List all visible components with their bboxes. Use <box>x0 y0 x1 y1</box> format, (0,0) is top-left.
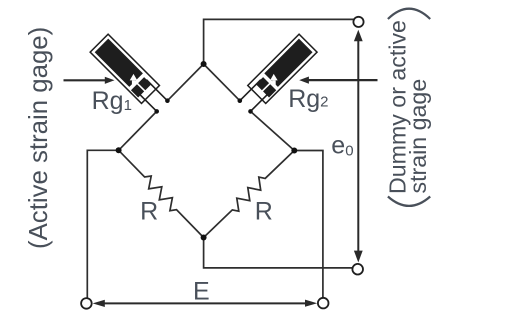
right force arrow <box>299 77 377 84</box>
node Rg2 lead A <box>248 109 253 114</box>
wire right node to bottom-right terminal <box>294 151 323 304</box>
white alignment mark on Rg1 <box>130 74 138 85</box>
node top <box>201 61 207 67</box>
white alignment mark on Rg2 <box>270 74 278 85</box>
node right <box>291 148 297 154</box>
e0 measurement arrow <box>354 30 363 263</box>
wire left node to bottom-left terminal <box>87 150 118 303</box>
wire Rg2 lead A to right node <box>251 111 295 150</box>
svg-text:strain gage: strain gage <box>405 79 431 194</box>
strain gage Rg1 <box>90 34 171 115</box>
wire top node to Rg2 lead B <box>204 64 240 101</box>
node Rg1 lead B <box>165 98 170 103</box>
svg-text:(Active strain gage): (Active strain gage) <box>25 27 53 249</box>
strain gage Rg2 <box>236 34 317 115</box>
node bottom <box>201 235 207 241</box>
terminal lower output <box>352 264 363 275</box>
svg-text:R: R <box>255 198 273 226</box>
left force arrow <box>64 77 115 84</box>
node left <box>116 147 122 153</box>
node Rg1 lead A <box>154 109 159 114</box>
wire bottom node to lower output terminal <box>204 238 358 268</box>
E measurement arrow <box>93 300 318 307</box>
terminal bottom-right E <box>318 298 329 309</box>
node Rg2 lead B <box>238 98 243 103</box>
wire left node to Rg1 lead A <box>119 111 157 150</box>
svg-text:R: R <box>140 198 158 226</box>
big paren bottom <box>388 197 430 206</box>
resistor R2 (lower-right arm) <box>204 151 295 238</box>
terminal top-right output <box>353 17 363 27</box>
terminal bottom-left E <box>81 298 92 309</box>
wire Rg1 lead B to top node <box>167 64 203 101</box>
big paren top <box>388 9 430 19</box>
svg-text:E: E <box>193 277 210 305</box>
wire top node to top-right terminal <box>204 19 359 64</box>
resistor R1 (lower-left arm) <box>119 150 204 237</box>
